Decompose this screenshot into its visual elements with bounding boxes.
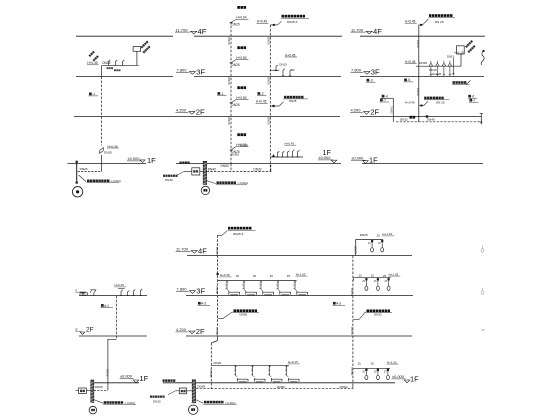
svg-text:DN25: DN25 bbox=[419, 61, 427, 65]
svg-text:DN40: DN40 bbox=[427, 118, 435, 122]
svg-text:-1: -1 bbox=[92, 92, 95, 96]
svg-text:DN25: DN25 bbox=[153, 399, 161, 403]
svg-text:±0.000: ±0.000 bbox=[319, 155, 332, 160]
svg-text:0: 0 bbox=[76, 328, 78, 332]
svg-text:H+1.05: H+1.05 bbox=[296, 272, 306, 276]
svg-text:H+0.45: H+0.45 bbox=[405, 60, 416, 64]
svg-text:H+0.04: H+0.04 bbox=[236, 16, 247, 20]
svg-text:-3: -3 bbox=[370, 79, 373, 83]
svg-text:A-2: A-2 bbox=[201, 302, 206, 306]
svg-text:20: 20 bbox=[253, 274, 257, 278]
svg-text:25: 25 bbox=[383, 274, 387, 278]
svg-text:H+0.45: H+0.45 bbox=[256, 100, 267, 104]
svg-text:H+0.08: H+0.08 bbox=[108, 144, 118, 148]
svg-text:H+0.45: H+0.45 bbox=[257, 20, 268, 24]
svg-text:DN50: DN50 bbox=[215, 328, 219, 336]
svg-text:-2: -2 bbox=[261, 92, 264, 96]
svg-text:±0.000: ±0.000 bbox=[392, 374, 405, 379]
svg-text:4F: 4F bbox=[373, 27, 382, 36]
svg-text:DN50: DN50 bbox=[340, 385, 348, 389]
svg-text:4.200: 4.200 bbox=[176, 327, 187, 332]
svg-text:A-1: A-1 bbox=[104, 304, 109, 308]
svg-text:±0.000: ±0.000 bbox=[120, 374, 133, 379]
svg-text:H+0.45: H+0.45 bbox=[285, 142, 295, 146]
svg-text:DN25: DN25 bbox=[232, 103, 240, 107]
svg-text:2F: 2F bbox=[86, 327, 94, 334]
svg-text:DN32: DN32 bbox=[106, 369, 110, 377]
svg-text:3F: 3F bbox=[196, 68, 205, 77]
svg-text:4.200: 4.200 bbox=[176, 108, 187, 113]
svg-text:DN50: DN50 bbox=[227, 117, 231, 125]
svg-text:DN40: DN40 bbox=[165, 178, 173, 182]
svg-text:DN50: DN50 bbox=[227, 77, 231, 85]
svg-text:-5: -5 bbox=[407, 78, 410, 82]
svg-text:DN25: DN25 bbox=[353, 246, 357, 254]
svg-text:DN25-3: DN25-3 bbox=[233, 232, 244, 236]
svg-text:25: 25 bbox=[371, 274, 375, 278]
svg-text:H+0.25: H+0.25 bbox=[432, 72, 442, 76]
svg-text:DN25: DN25 bbox=[232, 63, 240, 67]
svg-text:H+0.15: H+0.15 bbox=[288, 360, 298, 364]
svg-text:DN50: DN50 bbox=[350, 288, 354, 296]
svg-text:DN25: DN25 bbox=[289, 99, 297, 103]
svg-text:4F: 4F bbox=[198, 247, 207, 256]
svg-text:DN50: DN50 bbox=[231, 152, 239, 156]
svg-text:1F: 1F bbox=[140, 374, 149, 383]
svg-text:DN50: DN50 bbox=[215, 287, 219, 295]
svg-text:DN15: DN15 bbox=[279, 63, 287, 67]
svg-text:A-3: A-3 bbox=[336, 302, 341, 306]
svg-text:25: 25 bbox=[377, 233, 381, 237]
svg-text:20: 20 bbox=[236, 274, 240, 278]
svg-text:DN50: DN50 bbox=[266, 117, 270, 125]
svg-text:DN 20: DN 20 bbox=[436, 101, 445, 105]
svg-text:DN25: DN25 bbox=[360, 233, 368, 237]
svg-text:25: 25 bbox=[371, 361, 375, 365]
svg-text:11.700: 11.700 bbox=[176, 247, 189, 252]
svg-text:DN65: DN65 bbox=[240, 313, 248, 317]
svg-text:DN50: DN50 bbox=[227, 37, 231, 45]
svg-text:DN50: DN50 bbox=[266, 77, 270, 85]
svg-text:-7: -7 bbox=[383, 98, 386, 102]
svg-text:±0.000: ±0.000 bbox=[128, 156, 141, 161]
svg-text:DN25: DN25 bbox=[240, 143, 248, 147]
svg-text:25: 25 bbox=[358, 362, 362, 366]
svg-text:DN50: DN50 bbox=[221, 164, 229, 168]
svg-text:40: 40 bbox=[270, 274, 274, 278]
svg-text:H+0.25: H+0.25 bbox=[115, 283, 125, 287]
svg-text:DN32: DN32 bbox=[253, 168, 261, 172]
svg-text:DN50: DN50 bbox=[209, 370, 213, 378]
svg-text:DN25: DN25 bbox=[80, 167, 88, 171]
svg-text:DN50: DN50 bbox=[350, 327, 354, 335]
svg-text:DN50: DN50 bbox=[266, 37, 270, 45]
svg-text:H+0.45: H+0.45 bbox=[405, 101, 415, 105]
svg-text:DN25: DN25 bbox=[214, 361, 222, 365]
svg-text:DN50: DN50 bbox=[350, 368, 354, 376]
svg-text:-1: -1 bbox=[221, 92, 224, 96]
svg-text:4.200: 4.200 bbox=[351, 108, 362, 113]
svg-text:1F: 1F bbox=[410, 374, 419, 383]
svg-text:DN32: DN32 bbox=[389, 107, 393, 115]
svg-text:DN20: DN20 bbox=[416, 40, 420, 48]
svg-text:DN 20: DN 20 bbox=[435, 20, 444, 24]
svg-text:3F: 3F bbox=[371, 68, 380, 77]
svg-text:DN25-3: DN25-3 bbox=[287, 20, 298, 24]
svg-text:H+0.80: H+0.80 bbox=[236, 56, 247, 60]
svg-text:H+1.15: H+1.15 bbox=[454, 50, 464, 54]
svg-text:7.800: 7.800 bbox=[177, 68, 188, 73]
svg-text:2F: 2F bbox=[196, 108, 205, 117]
svg-text:DN32: DN32 bbox=[374, 313, 382, 317]
svg-text:DN25: DN25 bbox=[95, 385, 103, 389]
svg-text:DN65: DN65 bbox=[197, 385, 205, 389]
svg-text:1F: 1F bbox=[147, 156, 156, 165]
svg-text:H+1.05: H+1.05 bbox=[387, 360, 397, 364]
svg-text:H+0.80: H+0.80 bbox=[236, 96, 247, 100]
svg-text:25: 25 bbox=[287, 274, 291, 278]
svg-text:DN40: DN40 bbox=[208, 167, 216, 171]
svg-text:-7: -7 bbox=[473, 99, 476, 103]
svg-text:11.700: 11.700 bbox=[351, 27, 364, 32]
svg-text:1F: 1F bbox=[369, 156, 378, 165]
svg-text:2F: 2F bbox=[370, 108, 379, 117]
svg-text:DN50: DN50 bbox=[277, 385, 285, 389]
svg-text:DN15: DN15 bbox=[447, 54, 455, 58]
svg-text:20: 20 bbox=[359, 273, 363, 277]
svg-text:11.700: 11.700 bbox=[176, 27, 189, 32]
svg-text:H+0.45: H+0.45 bbox=[220, 273, 230, 277]
svg-text:H+0.45: H+0.45 bbox=[285, 53, 296, 57]
svg-text:4F: 4F bbox=[198, 27, 207, 36]
svg-text:2F: 2F bbox=[196, 327, 205, 336]
svg-text:H+1.05: H+1.05 bbox=[389, 272, 399, 276]
svg-text:H+1.15: H+1.15 bbox=[382, 232, 392, 236]
svg-text:DN25: DN25 bbox=[104, 150, 112, 154]
svg-text:DN20: DN20 bbox=[416, 88, 420, 96]
svg-text:H+0.45: H+0.45 bbox=[405, 20, 416, 24]
svg-text:DN25: DN25 bbox=[232, 23, 240, 27]
svg-text:3F: 3F bbox=[196, 287, 205, 296]
svg-text:DN50: DN50 bbox=[215, 247, 219, 255]
svg-text:DN25: DN25 bbox=[102, 61, 110, 65]
svg-text:DN32: DN32 bbox=[400, 118, 408, 122]
svg-text:7.800: 7.800 bbox=[351, 68, 362, 73]
svg-text:7.800: 7.800 bbox=[177, 287, 188, 292]
svg-text:±0.000: ±0.000 bbox=[351, 156, 364, 161]
svg-text:20: 20 bbox=[291, 68, 295, 72]
